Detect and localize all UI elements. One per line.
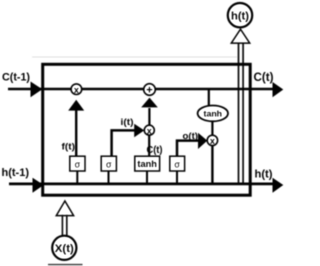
svg-text:h(t-1): h(t-1) <box>2 167 30 179</box>
arrowhead C(t-1) into box <box>31 82 43 98</box>
gate box sigma3 (output) <box>170 156 185 171</box>
svg-text:σ: σ <box>174 160 180 170</box>
svg-text:C(t): C(t) <box>147 145 163 156</box>
h(t) open arrowhead (top) <box>231 29 249 43</box>
svg-text:tanh: tanh <box>137 159 157 169</box>
svg-text:tanh: tanh <box>204 109 223 119</box>
faint scan line <box>32 56 237 58</box>
multiply node x1 (forget) <box>71 84 82 95</box>
wire f gate stem (sigma1 up to multiply) <box>75 110 77 157</box>
wire sigma3 down to h line <box>176 170 178 184</box>
arrowhead C(t) output <box>273 82 284 97</box>
arrowhead h(t) output <box>273 178 284 193</box>
svg-text:h(t): h(t) <box>231 11 249 23</box>
wire h(t) output shaft (double line up) <box>239 42 244 184</box>
wire i gate elbow (sigma2 up, right to multiply x2) <box>112 130 136 157</box>
svg-text:X(t): X(t) <box>55 243 74 255</box>
wire sigma1 down to h line <box>76 170 78 184</box>
wire multiply x3 down to h line <box>211 145 213 184</box>
tanh ellipse <box>198 106 228 122</box>
svg-text:i(t): i(t) <box>121 117 134 128</box>
add node + <box>144 84 156 96</box>
X(t) input circle <box>52 236 76 260</box>
h(t) output circle <box>228 3 252 27</box>
svg-text:x: x <box>147 126 152 136</box>
arrowhead i into multiply x2 <box>134 124 144 137</box>
arrowhead h(t-1) into box <box>33 178 44 193</box>
wire multiply x2 down to tanh box <box>148 134 150 157</box>
svg-text:x: x <box>74 85 79 95</box>
wire C(t-1) to C(t) <box>8 88 275 90</box>
wire multiply x2 up to add <box>148 108 150 126</box>
wire sigma2 down to h line <box>108 170 110 184</box>
multiply node x3 (output) <box>207 135 217 145</box>
scan artifact line under X(t) <box>48 264 83 266</box>
wire h(t-1) to h(t) <box>9 182 275 185</box>
multiply node x2 (input) <box>144 125 154 135</box>
gate box tanh <box>135 156 160 171</box>
svg-text:+: + <box>146 85 152 97</box>
svg-text:σ: σ <box>106 160 112 170</box>
gate box sigma1 (forget) <box>70 156 85 171</box>
svg-text:h(t): h(t) <box>255 169 273 181</box>
wire tanh ellipse down to multiply x3 <box>211 121 213 136</box>
X(t) open arrowhead (bottom, into box) <box>56 201 73 216</box>
gate box sigma2 (input) <box>101 156 116 171</box>
LSTM cell box <box>43 64 251 195</box>
wire o gate elbow (sigma3 up, right to multiply x3) <box>177 141 199 157</box>
wire C line down to tanh ellipse <box>208 90 210 106</box>
wire X(t) shaft (double line) <box>62 215 66 236</box>
arrowhead into add <box>141 98 158 108</box>
svg-text:σ: σ <box>75 160 81 170</box>
svg-text:o(t): o(t) <box>183 131 199 142</box>
wire tanh box down to h line <box>146 170 148 184</box>
arrowhead f into multiply x1 <box>68 100 84 111</box>
svg-text:C(t-1): C(t-1) <box>2 72 30 84</box>
svg-text:x: x <box>210 136 215 146</box>
svg-text:C(t): C(t) <box>254 72 274 84</box>
arrowhead o into multiply x3 <box>198 133 207 149</box>
svg-text:f(t): f(t) <box>62 141 76 152</box>
